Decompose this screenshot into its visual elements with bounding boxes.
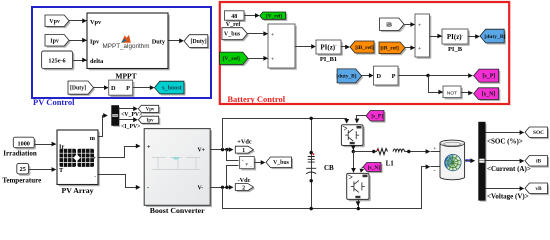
svg-text:m: m [90,135,96,142]
svg-text:[Duty]: [Duty] [191,39,207,45]
svg-text:Vpv: Vpv [146,108,155,113]
svg-text:+: + [418,23,421,29]
svg-text:125e-6: 125e-6 [48,58,65,65]
svg-text:V+: V+ [198,148,206,154]
svg-text:V_ref: V_ref [226,22,242,28]
svg-text:PV Array: PV Array [61,186,93,195]
svg-text:-: - [147,186,149,192]
svg-text:Ipv: Ipv [90,39,100,46]
svg-text:[V_ref]: [V_ref] [266,13,282,19]
svg-text:[iB_ref]: [iB_ref] [380,46,399,52]
svg-text:[iB_ref]: [iB_ref] [355,45,374,51]
svg-text:-Vdc: -Vdc [238,177,251,184]
svg-text:<Voltage (V)>: <Voltage (V)> [487,193,529,201]
svg-text:1: 1 [242,148,245,154]
svg-text:delta: delta [90,58,104,65]
svg-text:Ipv: Ipv [50,38,59,44]
svg-text:PI(z)-: PI(z)- [320,43,337,52]
svg-text:NOT: NOT [447,90,457,96]
svg-text:PI_B: PI_B [448,46,463,53]
svg-text:Battery Control: Battery Control [227,94,285,104]
svg-text:MPPT: MPPT [115,72,136,81]
svg-text:[s_N]: [s_N] [368,165,380,171]
svg-text:vB: vB [535,186,542,192]
svg-text:+: + [418,46,421,52]
svg-text:<Current (A)>: <Current (A)> [487,165,531,173]
svg-text:+: + [271,57,274,63]
svg-text:1000: 1000 [18,140,30,147]
svg-text:[duty_B]: [duty_B] [336,74,357,80]
svg-text:+: + [147,145,151,151]
svg-text:+: + [433,146,436,152]
svg-text:Irradiation: Irradiation [3,149,37,157]
svg-text:CB: CB [324,164,334,172]
svg-text:D: D [377,73,382,80]
svg-text:25: 25 [20,166,26,173]
svg-text:<SOC (%)>: <SOC (%)> [487,138,523,146]
svg-text:[s_P]: [s_P] [371,114,383,120]
svg-text:PI_B1: PI_B1 [320,56,337,63]
svg-text:PI(z)-: PI(z)- [447,33,464,42]
svg-text:SOC: SOC [533,130,544,136]
svg-text:-: - [434,168,436,174]
svg-text:[Duty]: [Duty] [70,86,86,92]
svg-text:V-: V- [198,185,204,191]
svg-text:iB: iB [386,22,392,28]
svg-text:L1: L1 [386,159,395,167]
svg-text:+Vdc: +Vdc [237,139,252,146]
svg-text:[duty_B]: [duty_B] [484,34,505,40]
svg-text:Duty: Duty [152,39,166,46]
svg-text:<I_PV>: <I_PV> [121,124,141,130]
svg-text:iB: iB [536,159,541,165]
svg-text:2: 2 [242,186,245,192]
svg-text:D: D [111,85,116,92]
svg-text:+: + [271,32,274,38]
svg-text:48: 48 [231,14,237,20]
svg-text:Temperature: Temperature [2,176,41,184]
svg-text:<V_PV>: <V_PV> [121,112,142,118]
svg-text:[V_ref]: [V_ref] [223,56,240,62]
svg-text:[s_P]: [s_P] [482,74,495,80]
svg-text:Vpv: Vpv [90,19,102,26]
svg-text:V_bus: V_bus [273,160,290,166]
svg-text:s_boost: s_boost [162,85,183,92]
svg-text:Boost Converter: Boost Converter [150,206,205,215]
svg-text:MPPT_algorithm: MPPT_algorithm [103,43,150,50]
svg-text:Vpv: Vpv [49,19,60,25]
svg-text:P: P [392,73,396,80]
svg-text:P: P [126,85,130,92]
svg-text:PV Control: PV Control [33,97,75,107]
svg-text:Ipv: Ipv [147,118,155,123]
svg-text:V_bus: V_bus [224,32,241,38]
svg-text:[s_N]: [s_N] [482,92,496,98]
